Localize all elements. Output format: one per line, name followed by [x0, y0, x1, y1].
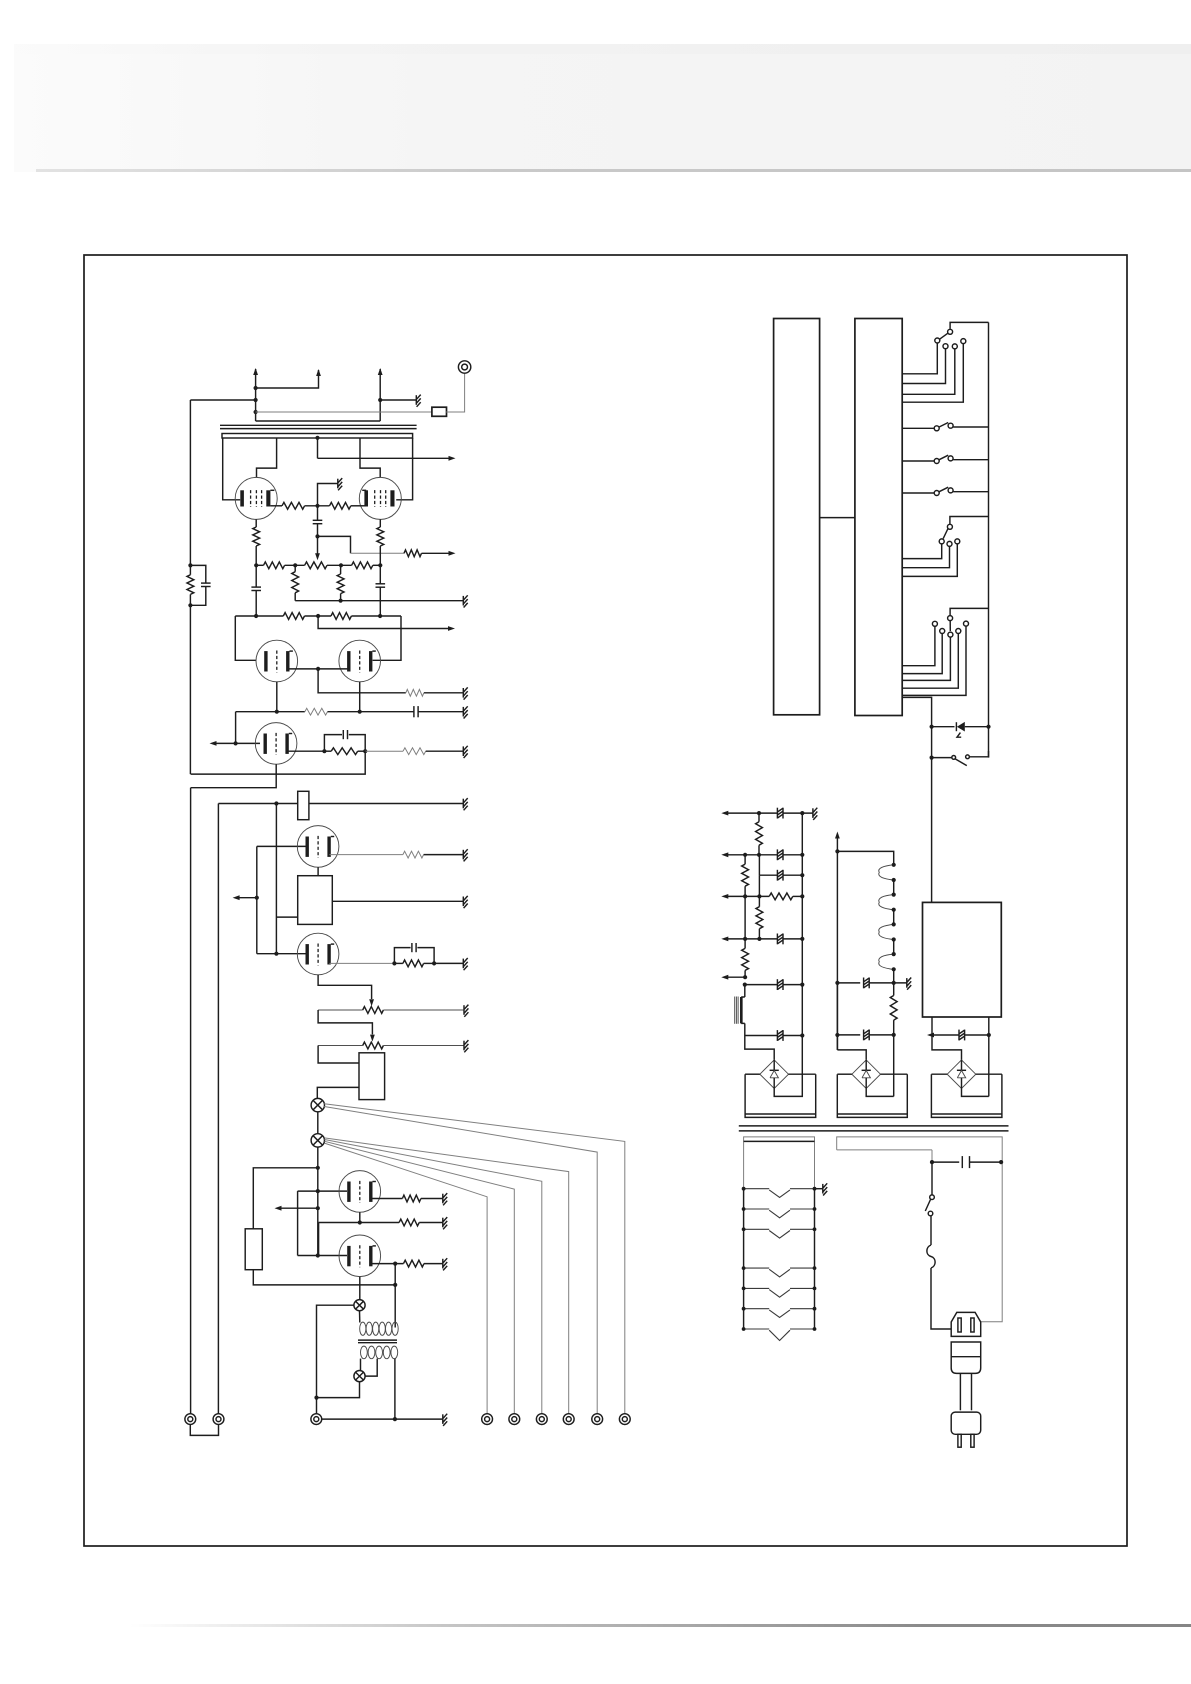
wire S1 contact leads: [902, 343, 937, 374]
node bias junction: [315, 534, 319, 538]
wire N1 right to ground: [332, 900, 463, 902]
jack J2: [213, 1414, 224, 1425]
potentiometer VR3: [318, 1045, 363, 1047]
node center tap: [315, 436, 319, 440]
wire B+ arrow: [317, 438, 319, 458]
wire jack link: [190, 1425, 218, 1436]
resistor R5 cathode V2: [379, 519, 381, 527]
capacitor C7 bypass: [394, 948, 410, 964]
capacitor C4 parallel: [190, 565, 205, 583]
AC adapter body: [951, 1342, 981, 1373]
switch S8 power: [930, 1195, 935, 1200]
wire bridge BR2 feed: [837, 1050, 866, 1060]
wire grid junction: [305, 505, 330, 507]
left output rail: [190, 788, 192, 1414]
wire V3 plate to V4 grid: [288, 668, 348, 670]
tube V5 triode: [255, 723, 297, 765]
wire plate lead V1 top: [255, 369, 257, 421]
bridge rectifier BR2: [852, 1060, 881, 1089]
power transformer T3 core: [739, 1125, 1009, 1127]
wire fan line 5: [325, 1141, 515, 1413]
tube V7 triode: [297, 933, 339, 975]
primary winding outline: [837, 1137, 1003, 1322]
resistor R26: [744, 855, 746, 864]
wire fuse to plug: [931, 1268, 951, 1329]
capacitor C13 line filter: [932, 1161, 959, 1163]
wire arrow row: [318, 616, 452, 629]
ground G13: [442, 1194, 444, 1204]
wire N1 left: [276, 916, 297, 918]
wire to resistor R16: [365, 750, 403, 752]
capacitor C11 row: [837, 982, 860, 984]
resistor R1 grid V1: [270, 505, 282, 507]
wire V8 plate: [371, 1198, 402, 1200]
ground G2: [337, 479, 339, 489]
schematic frame: [84, 255, 1127, 1546]
wire to ground V2: [380, 399, 416, 401]
wire S6 contact leads: [902, 626, 935, 665]
tube V9 triode: [339, 1235, 381, 1277]
jack J6: [536, 1414, 547, 1425]
wire BR3 left: [931, 1073, 947, 1075]
left rail continues: [189, 605, 191, 774]
switch S6 contacts: [932, 621, 937, 626]
wire to switch S8: [931, 1162, 933, 1195]
tube V3 driver triode: [256, 640, 298, 682]
wire BR3 notch: [962, 1089, 989, 1097]
right rail: [988, 322, 990, 757]
wire bottom staple: [256, 420, 381, 422]
wire cathode row: [256, 564, 263, 566]
resistor R9: [340, 565, 342, 574]
wire T1 tap to V1 screen top: [257, 438, 277, 478]
header gradient band: [14, 44, 1191, 172]
capacitor C10 row: [930, 1034, 959, 1036]
lamp LP1 selector: [311, 1098, 324, 1111]
wire R20 bottom to plate node: [253, 1270, 395, 1285]
wire row with resistor box: [218, 803, 297, 805]
fuse F1 box: [432, 407, 447, 416]
wire gray to fuse box: [256, 411, 432, 413]
lamp LP3: [354, 1300, 365, 1311]
wire secondary center tap: [365, 1359, 377, 1377]
wire VR2 left to VR3 wiper: [318, 1010, 372, 1034]
wire T1 left tap to V1 plate: [223, 438, 241, 500]
winding box BR3: [931, 1074, 1002, 1117]
wire heater ground stub: [815, 1188, 823, 1190]
wire to feedback resistor box: [253, 1168, 317, 1229]
tube V4 driver triode: [339, 640, 381, 682]
resistor R15: [331, 748, 358, 755]
switch S4 row: [902, 492, 934, 494]
tube V6 triode: [297, 826, 339, 868]
resistor R3 feedback: [404, 550, 422, 557]
ground G15: [442, 1259, 444, 1269]
wire block link: [820, 517, 855, 519]
wire input arrow V5 grid: [213, 742, 261, 744]
ground G16: [442, 1414, 444, 1424]
module block A: [774, 319, 820, 715]
wire fan line 4: [325, 1140, 542, 1414]
wire branch down: [275, 804, 277, 954]
wire input arrow 1: [235, 897, 257, 899]
ground G6: [462, 746, 464, 756]
wire BR2 right rail: [893, 1035, 895, 1097]
wire fan line 3: [324, 1138, 568, 1414]
wire lamp3 to T2 primary: [359, 1311, 361, 1323]
wire BR2 notch: [866, 1089, 894, 1097]
resistor R20 box: [245, 1229, 262, 1270]
wire N2 to lamp: [317, 1087, 359, 1098]
wire V3 cathode: [276, 682, 278, 712]
jack J0 top right: [458, 361, 470, 373]
ground G8: [462, 850, 464, 860]
wire bias bracket to ground: [318, 484, 338, 506]
wire secondary left to lamp4: [360, 1359, 362, 1371]
wire V6 grid: [257, 845, 306, 847]
fuse F2: [927, 1245, 935, 1268]
ground G11: [463, 1005, 465, 1015]
capacitor C1: [317, 506, 319, 521]
heater winding taps: [744, 1188, 770, 1190]
wire row 5b: [745, 984, 777, 986]
wire bottom ground row: [322, 1418, 443, 1420]
ground G9: [462, 897, 464, 907]
resistor R25: [758, 813, 760, 822]
wire choke rail arrow: [836, 834, 838, 1050]
wire cathode row V8: [319, 1222, 400, 1224]
wire lamp2 down: [317, 1147, 319, 1255]
wire fan line 1: [324, 1104, 625, 1414]
second rail: [217, 804, 219, 1414]
resistor R21: [402, 1195, 421, 1202]
wire cathode row 2: [236, 711, 305, 713]
resistor R23: [404, 1260, 425, 1267]
module block C: [923, 902, 1002, 1017]
transformer T2 core: [358, 1339, 397, 1341]
ground G1: [415, 395, 417, 405]
wire lamp3 left leg: [317, 1305, 354, 1397]
resistor R13: [406, 689, 424, 696]
wire V8 cathode: [359, 1212, 361, 1222]
wire block C stubs: [931, 1017, 933, 1035]
bridge rectifier BR3: [947, 1060, 976, 1089]
wire grid tie U: [297, 1191, 299, 1255]
bridge rectifier BR1: [760, 1060, 789, 1089]
switch S3 row: [902, 460, 934, 462]
wire to V3 grid: [235, 616, 256, 660]
jack J8: [592, 1414, 603, 1425]
switch S1 contacts: [935, 338, 940, 343]
wire rail mid: [758, 875, 760, 907]
wire row 3: [724, 895, 769, 897]
ground G3: [462, 596, 464, 606]
wire screen row: [235, 615, 283, 617]
wire BR1 left: [745, 1073, 760, 1075]
switch S2 row: [902, 427, 934, 429]
wire row to V9 grid row: [318, 1223, 320, 1256]
winding box BR2: [837, 1074, 907, 1117]
ground G17: [906, 978, 908, 988]
wire BR3 right: [976, 1073, 1002, 1075]
switch S5 arm: [943, 529, 948, 539]
lamp LP4: [354, 1371, 365, 1382]
wire input arrow 2: [277, 1207, 318, 1209]
resistor R27: [769, 893, 793, 900]
diode D1 zener row: [932, 726, 955, 728]
jack J9: [619, 1414, 630, 1425]
switch S6 arm: [949, 621, 951, 631]
resistor R2 grid V2: [330, 502, 351, 509]
bottom gradient rule: [130, 1624, 1191, 1627]
wire block B bottom feed: [902, 697, 931, 902]
wire rotary switch S6 common to rail: [950, 608, 988, 615]
wire plate node to long return: [191, 751, 366, 774]
switch S6 common contact: [948, 616, 953, 621]
wire secondary right down: [394, 1359, 396, 1420]
wire V8 grid row: [298, 1190, 347, 1192]
transformer T2 secondary loops: [361, 1346, 368, 1359]
wire BR2 right: [881, 1073, 908, 1075]
wire bridge BR3 feed: [932, 1035, 962, 1060]
resistor R4 cathode V1: [255, 519, 257, 527]
wire V6 cathode: [317, 867, 319, 876]
wire V9 plate: [371, 1263, 403, 1265]
wire V7 cathode to pot1 wiper: [318, 975, 372, 999]
potentiometer VR2: [318, 1009, 363, 1011]
resistor R19: [403, 960, 424, 967]
wire to V5 grid row: [235, 712, 237, 744]
capacitor C3 cathode V2: [379, 565, 381, 584]
wire fan line 6: [324, 1143, 487, 1414]
heater winding rails: [743, 1189, 745, 1329]
wire V9 grid row: [298, 1255, 347, 1257]
lamp LP2 selector: [311, 1134, 324, 1147]
wire fan line 2: [324, 1107, 597, 1414]
ground G14: [442, 1218, 444, 1228]
transformer T2 primary loops: [360, 1322, 366, 1335]
wire BR1 right: [789, 1073, 816, 1075]
AC plug lower: [951, 1412, 981, 1434]
wire bias to feedback row: [318, 536, 351, 553]
resistor R29: [744, 896, 746, 939]
resistor R12: [331, 613, 351, 620]
wire rotary switch S1 common to rail: [950, 322, 988, 329]
wire bridge BR1 feed: [745, 1036, 774, 1060]
network box N1: [298, 876, 333, 925]
capacitor C6 bypass: [324, 735, 342, 752]
wire fuse to antenna jack: [446, 373, 464, 412]
wire T1 tap to V2 screen top: [360, 438, 380, 478]
wire V5 plate: [287, 750, 324, 752]
ground G19: [822, 1184, 824, 1194]
wire to cathode ground row: [318, 669, 406, 693]
wire choke top: [837, 851, 893, 864]
wire lamp4 bottom: [317, 1382, 360, 1398]
resistor R22: [399, 1219, 419, 1226]
resistor R11: [283, 613, 304, 620]
wire right filter rail: [801, 813, 803, 1074]
jack J7: [563, 1414, 574, 1425]
wire row 1: [724, 812, 777, 814]
resistor R24: [893, 983, 895, 996]
tube V1 output pentode: [235, 477, 277, 519]
switch S5 common contact: [947, 524, 952, 529]
resistor R17 box: [298, 791, 309, 819]
switch S7 row: [932, 757, 952, 759]
wire V6 plate: [329, 854, 403, 856]
ground G4: [462, 688, 464, 698]
ground G5: [462, 707, 464, 717]
ground G7: [462, 799, 464, 809]
ground G10: [462, 959, 464, 969]
wire plate lead V2 top: [379, 369, 381, 400]
wire lamp link: [317, 1112, 319, 1134]
ground G18: [812, 808, 814, 818]
network box N2: [359, 1053, 385, 1100]
switch S1 arm: [940, 333, 948, 339]
heater winding top line: [744, 1140, 815, 1142]
AC cable: [959, 1373, 961, 1410]
wire S5 contact leads: [902, 544, 942, 559]
left rail R-C decoupling: [189, 400, 191, 565]
ground G12: [463, 1041, 465, 1051]
capacitor can CM: [744, 985, 746, 997]
resistor R8: [294, 565, 296, 571]
switch S1 common contact: [948, 329, 953, 334]
wire BR1 notch: [774, 1074, 802, 1096]
wire rotary switch S5 common to rail: [950, 517, 989, 525]
tube V8 triode: [339, 1171, 381, 1213]
resistor R18: [403, 851, 424, 858]
wire BR2 left: [837, 1073, 852, 1075]
wire V7 grid row: [257, 953, 306, 955]
wire V5 cathode to lower rail: [191, 764, 277, 788]
tube V2 output pentode: [359, 477, 401, 519]
resistor R16: [403, 748, 426, 755]
wire to left rail: [190, 399, 255, 401]
output transformer T1 core: [220, 424, 417, 426]
wire wiper arrow onto balance pot: [317, 536, 319, 553]
wire to fuse F2: [930, 1216, 932, 1245]
AC plug upper: [951, 1312, 981, 1336]
choke L1 elements: [879, 865, 894, 880]
switch S5 contacts: [939, 539, 944, 544]
wire feedback arrow: [422, 552, 453, 554]
winding box BR1: [745, 1074, 816, 1117]
resistor R14: [305, 708, 328, 715]
wire bias ground row: [295, 600, 463, 602]
wire V9 cathode to lamp3: [359, 1277, 361, 1300]
potentiometer VR1 hum balance: [305, 562, 327, 569]
wire BR3 right rail: [988, 1035, 990, 1096]
jack J1: [185, 1414, 196, 1425]
wire row 4: [724, 938, 777, 940]
capacitor C12 row: [837, 1034, 860, 1036]
jack J3: [311, 1414, 322, 1425]
wire staple to V2 screen: [256, 370, 319, 388]
wire V4 cathode: [359, 682, 361, 712]
wire row 5 arrow: [724, 976, 745, 978]
wire to jack J3: [316, 1398, 318, 1414]
wire grid rail: [256, 846, 258, 953]
wire row 2: [724, 854, 777, 856]
wire T1 right tap to V2 plate: [396, 438, 412, 500]
resistor R10 on rail: [187, 575, 194, 595]
wire V7 plate: [329, 962, 394, 964]
heater winding box left: [744, 1137, 815, 1189]
output transformer T1 primary winding box: [222, 434, 413, 439]
resistor R7: [352, 562, 373, 569]
capacitor C5: [413, 706, 415, 717]
jack J5: [509, 1414, 520, 1425]
wire plate node down: [394, 1264, 396, 1328]
jack J4: [482, 1414, 493, 1425]
wire row 2b: [758, 855, 760, 875]
resistor R6: [264, 562, 285, 569]
wire rail to cap row2: [836, 983, 838, 1050]
capacitor C2 cathode V1: [255, 565, 257, 587]
module block B: [855, 319, 902, 716]
wire to V4 plate: [373, 616, 401, 660]
node plate junctions: [254, 386, 258, 390]
wire row 6: [744, 1023, 746, 1035]
resistor R28: [756, 907, 763, 929]
wire VR3 left to network N2: [318, 1046, 359, 1064]
